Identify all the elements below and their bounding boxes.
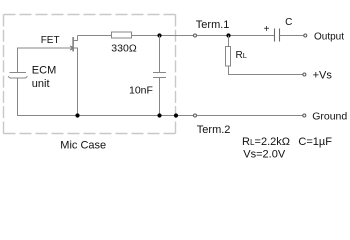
capacitor C left plate — [274, 29, 276, 42]
ground rail wire — [17, 115, 303, 117]
svg-text:RL: RL — [236, 50, 247, 61]
svg-text:10nF: 10nF — [129, 85, 153, 97]
wire resistor to output capacitor — [132, 35, 275, 37]
svg-text:ECM: ECM — [32, 65, 56, 77]
terminal Output — [304, 34, 307, 37]
svg-text:Term.2: Term.2 — [197, 124, 231, 136]
svg-text:+: + — [264, 24, 270, 35]
wire capsule lower lead to ground rail — [17, 78, 19, 116]
wire capsule upper lead / gate loop — [18, 48, 73, 73]
terminal Ground — [303, 114, 306, 117]
transistor FET channel bar — [72, 37, 74, 52]
svg-text:unit: unit — [32, 78, 50, 90]
mic case dashed enclosure — [4, 15, 176, 134]
transistor FET drain lead — [73, 36, 77, 41]
wire capacitor C to output — [280, 35, 304, 37]
wire drain to resistor — [78, 35, 112, 37]
svg-text:+Vs: +Vs — [313, 69, 333, 81]
junction node RL top — [226, 33, 230, 37]
svg-text:RL=2.2kΩ: RL=2.2kΩ — [242, 136, 290, 148]
svg-text:C: C — [285, 17, 292, 28]
wire RL to +Vs — [229, 66, 304, 75]
svg-text:Mic Case: Mic Case — [60, 140, 106, 152]
transistor FET gate arrow — [70, 46, 73, 50]
capacitor 10nF top plate — [153, 72, 166, 74]
svg-text:Vs=2.0V: Vs=2.0V — [243, 149, 286, 161]
svg-text:Ground: Ground — [312, 110, 347, 122]
svg-text:FET: FET — [41, 35, 60, 46]
capacitor 10nF lower lead — [159, 78, 161, 116]
ECM capsule top plate — [10, 72, 27, 74]
svg-text:330Ω: 330Ω — [111, 43, 137, 55]
terminal +Vs — [303, 73, 306, 76]
capacitor C right plate — [279, 29, 281, 42]
resistor RL body — [226, 47, 231, 67]
transistor FET source lead — [73, 48, 77, 116]
terminal Term.2 — [194, 114, 197, 117]
capacitor 10nF upper lead — [159, 36, 161, 73]
junction node 10nF/ground — [157, 113, 161, 117]
junction node source/ground — [75, 113, 79, 117]
junction node case/ground — [174, 113, 178, 117]
terminal Term.1 — [194, 34, 197, 37]
svg-text:C=1µF: C=1µF — [298, 136, 332, 148]
resistor RL upper lead — [228, 36, 230, 48]
svg-text:Term.1: Term.1 — [196, 19, 230, 31]
capacitor 10nF bottom plate — [153, 77, 166, 79]
resistor 330ohm — [112, 32, 132, 38]
ECM capsule bottom plate — [8, 76, 28, 78]
svg-text:Output: Output — [314, 32, 344, 43]
junction node resistor/10nF — [157, 33, 161, 37]
